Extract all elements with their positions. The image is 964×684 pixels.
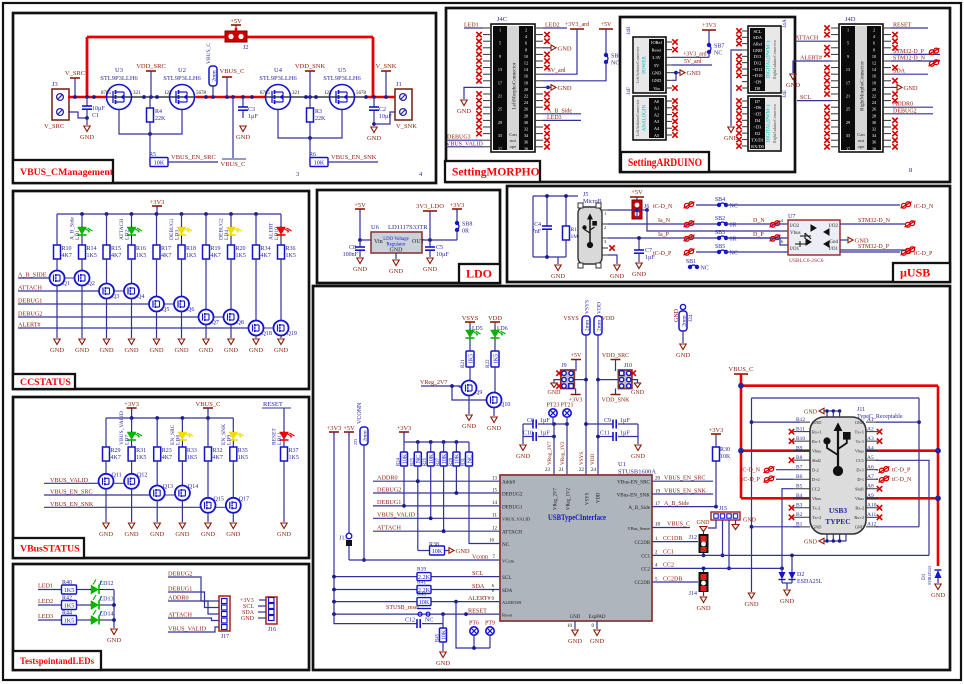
ground R19 col	[199, 339, 213, 354]
net label VBUS_EN_SRC	[44, 489, 150, 496]
svg-text:A7: A7	[867, 474, 874, 480]
test point PT6	[469, 621, 479, 649]
wire Q8 to ground	[230, 325, 232, 339]
svg-text:J4D: J4D	[845, 16, 856, 23]
svg-text:C2: C2	[379, 107, 386, 113]
svg-text:µUSB: µUSB	[900, 266, 930, 280]
svg-text:GND: GND	[631, 390, 645, 396]
svg-text:CC1: CC1	[663, 550, 674, 556]
connector J16	[266, 597, 277, 633]
rotated net VReg_2V7	[547, 441, 553, 465]
LED LD6	[491, 326, 508, 351]
title uUSB	[893, 263, 950, 282]
svg-text:D+2: D+2	[812, 477, 820, 482]
jumper J6	[632, 200, 649, 219]
ground arrow R38	[449, 548, 470, 555]
svg-text:Vbus: Vbus	[790, 231, 801, 236]
svg-text:9: 9	[847, 54, 849, 59]
svg-text:14: 14	[492, 501, 498, 506]
svg-text:3V3_LDO: 3V3_LDO	[416, 203, 444, 210]
svg-text:NC: NC	[425, 618, 433, 624]
wire pullup col4 to ATTACH	[443, 466, 445, 531]
resistor R24 10K	[397, 442, 409, 466]
svg-text:18: 18	[524, 80, 528, 85]
wire Q12 to ground	[131, 489, 133, 522]
svg-text:R41: R41	[417, 579, 426, 585]
ground below C3	[236, 126, 250, 141]
power flag +3V3 J9	[569, 389, 583, 404]
svg-text:tC-D_P: tC-D_P	[892, 468, 911, 474]
no-connect J10 pads	[631, 371, 636, 376]
IC U1 STUSB1600A	[500, 461, 656, 621]
power flag VBUS_C top	[220, 68, 245, 97]
svg-text:321: 321	[292, 91, 300, 96]
svg-text:RightArduinoConnector: RightArduinoConnector	[772, 103, 777, 143]
svg-text:VBUS_EN_SNK: VBUS_EN_SNK	[664, 489, 707, 495]
resistor R45 10K	[436, 624, 448, 651]
ground U6	[389, 253, 403, 275]
svg-text:Q11: Q11	[112, 472, 122, 478]
svg-text:VCom: VCom	[502, 559, 515, 564]
svg-text:GND: GND	[75, 347, 89, 354]
svg-text:STM32-D_N: STM32-D_N	[858, 218, 891, 224]
svg-text:U7: U7	[788, 214, 795, 220]
svg-text:GND: GND	[516, 453, 530, 460]
svg-text:Q14: Q14	[188, 484, 198, 490]
svg-text:ESDA25L: ESDA25L	[797, 579, 823, 585]
svg-text:LD12: LD12	[100, 581, 114, 587]
wire VBUS_C red net	[738, 374, 941, 566]
svg-text:B8: B8	[796, 455, 803, 461]
svg-text:D2: D2	[755, 131, 760, 136]
svg-text:4K7: 4K7	[261, 253, 271, 259]
svg-text:GND: GND	[274, 347, 288, 354]
wire Q13 to ground	[156, 501, 158, 523]
svg-text:LD5: LD5	[472, 326, 483, 332]
svg-text:0R: 0R	[462, 229, 469, 235]
svg-text:+5V: +5V	[230, 18, 242, 25]
svg-text:ExpPAD: ExpPAD	[589, 615, 606, 620]
svg-text:RESET: RESET	[468, 607, 487, 614]
svg-text:17: 17	[846, 80, 850, 85]
svg-text:2: 2	[525, 28, 527, 33]
ground R31 col	[125, 523, 139, 538]
svg-text:22: 22	[872, 94, 876, 99]
svg-text:R39: R39	[417, 567, 426, 573]
svg-text:GND: GND	[568, 638, 582, 645]
svg-text:21: 21	[498, 94, 502, 99]
net label RESET J4D	[891, 23, 928, 29]
svg-text:2mm: 2mm	[362, 430, 368, 442]
svg-text:GND: GND	[590, 638, 604, 645]
power flag +3V3 pullups	[397, 425, 412, 442]
svg-text:+3V3: +3V3	[124, 401, 139, 408]
svg-text:VSYS: VSYS	[586, 492, 591, 505]
net label LED2	[38, 598, 61, 605]
svg-text:Rx-1: Rx-1	[812, 439, 821, 444]
svg-text:Vbus: Vbus	[812, 448, 821, 453]
transistor Q15	[201, 461, 224, 513]
title SettingMORPHO	[445, 161, 540, 182]
svg-text:LDO Voltage: LDO Voltage	[383, 237, 409, 242]
svg-text:C10: C10	[523, 431, 533, 437]
svg-text:GND: GND	[236, 134, 250, 141]
no-connect marks J4B	[672, 39, 677, 90]
svg-text:VBUS_VALID: VBUS_VALID	[502, 517, 531, 522]
svg-text:GND: GND	[697, 520, 711, 526]
wire gate pair ATTACH	[114, 290, 124, 292]
svg-text:LD1117S33TR: LD1117S33TR	[388, 224, 428, 231]
svg-text:28: 28	[524, 113, 528, 118]
svg-text:A6: A6	[867, 465, 874, 471]
svg-text:12: 12	[524, 61, 528, 66]
svg-text:10K: 10K	[154, 160, 165, 167]
svg-text:Q3: Q3	[112, 294, 119, 300]
ground J12 top	[697, 520, 711, 534]
net label DEBUG2 to J17	[168, 571, 219, 602]
svg-text:Q9: Q9	[475, 390, 482, 396]
ground arrow J4D right	[891, 85, 918, 92]
svg-text:2: 2	[604, 225, 606, 230]
svg-text:C9: C9	[604, 418, 611, 424]
svg-text:R28: R28	[449, 457, 454, 466]
svg-text:8: 8	[873, 47, 875, 52]
svg-text:5: 5	[847, 41, 849, 46]
solder bridge SB1 NC	[686, 259, 709, 272]
svg-text:Shd2: Shd2	[812, 458, 821, 463]
svg-text:VDD_SRC: VDD_SRC	[602, 353, 629, 359]
svg-text:+3V3: +3V3	[450, 202, 465, 209]
wire Q3 to ground	[106, 299, 108, 339]
svg-text:1K5: 1K5	[468, 354, 474, 364]
svg-text:25: 25	[846, 107, 850, 112]
wire Vin	[360, 239, 371, 241]
svg-text:4K7: 4K7	[162, 455, 172, 461]
net label DEBUG1 row	[373, 499, 500, 508]
ground R29 col	[99, 523, 113, 538]
wire A12 gnd	[876, 526, 919, 528]
svg-text:13: 13	[498, 67, 502, 72]
svg-text:123: 123	[164, 91, 172, 96]
ground D2	[780, 590, 794, 605]
transistor Q7	[199, 259, 219, 326]
solder bridge SB5 NC	[715, 244, 900, 257]
section box uUSB	[507, 186, 950, 282]
bowtie tC-D_P right	[901, 249, 934, 257]
resistor R5 10K	[149, 152, 168, 167]
ground arrow U7	[840, 237, 869, 244]
svg-text:GND: GND	[199, 347, 213, 354]
svg-text:VBUS_C: VBUS_C	[196, 401, 221, 408]
resistor R15 4K7	[103, 214, 121, 259]
svg-text:PT21: PT21	[560, 403, 573, 409]
bowtie tC-D_N right	[901, 202, 935, 210]
ground J24	[676, 344, 690, 359]
svg-text:A4: A4	[654, 126, 660, 131]
svg-text:GND: GND	[855, 525, 864, 530]
transistor Q4	[124, 259, 144, 300]
svg-text:GND: GND	[743, 518, 757, 524]
power flag V_SRC	[65, 70, 85, 97]
wire J9 to VSYS	[574, 378, 588, 382]
no-connect marks J11 right	[877, 429, 882, 520]
svg-text:J12: J12	[689, 535, 697, 541]
wire GND left vertical TypeC	[750, 398, 754, 592]
capacitor C1 10uF	[82, 97, 105, 119]
svg-text:28: 28	[872, 113, 876, 118]
svg-text:DEBUG1: DEBUG1	[377, 499, 401, 506]
net label VBUS_C chip	[652, 522, 690, 528]
svg-text:38: 38	[872, 146, 876, 151]
net label CC1 row	[652, 550, 929, 558]
LED LD14	[90, 610, 114, 625]
svg-text:VSYS: VSYS	[579, 452, 585, 465]
resistor R37 1K5	[281, 444, 299, 522]
net label LED2 J4C	[543, 23, 567, 29]
svg-text:GND: GND	[224, 347, 238, 354]
wire D_P to U7 pin6	[726, 238, 788, 245]
wire GND top route TypeC	[752, 398, 921, 527]
svg-text:VBUS_EN_SRC: VBUS_EN_SRC	[664, 476, 705, 482]
svg-text:3: 3	[296, 171, 299, 178]
net label DEBUG3 J4C	[447, 135, 483, 141]
svg-text:LD3: LD3	[175, 230, 181, 240]
net label VBUS_EN_SRC chip	[652, 476, 713, 482]
wire SCL row	[332, 570, 500, 578]
svg-text:V_SRC: V_SRC	[65, 70, 85, 77]
svg-text:GND: GND	[931, 592, 945, 599]
power flag VDD LD6	[488, 315, 502, 330]
no-connect J9 pads	[556, 371, 561, 389]
title CCSTATUS	[13, 374, 75, 389]
svg-text:Vin: Vin	[374, 239, 383, 245]
ground TypeC top	[804, 408, 841, 417]
wire Q11 to ground	[105, 489, 107, 522]
resistor R38 10K	[418, 542, 449, 555]
svg-text:6: 6	[873, 41, 875, 46]
capacitor C5 10uF	[425, 240, 449, 258]
section box SettingMORPHO	[446, 8, 950, 182]
svg-text:D_N: D_N	[753, 218, 765, 224]
ground below C2	[367, 127, 381, 142]
svg-text:STM32-D_P: STM32-D_P	[858, 244, 890, 250]
transistor Q5	[149, 259, 169, 313]
resistor R28 10K	[449, 442, 461, 466]
wire OUT	[422, 238, 457, 242]
svg-text:VSYS: VSYS	[585, 300, 591, 314]
node junctions on VBUS rail	[73, 95, 388, 99]
svg-text:U4: U4	[274, 67, 283, 74]
net label VBUS_VALID	[44, 477, 99, 484]
connector J4B LeftArduinoConnector POWER	[626, 26, 672, 93]
svg-text:U2: U2	[178, 67, 186, 74]
svg-text:J23: J23	[353, 438, 358, 445]
svg-text:Rx+1: Rx+1	[812, 429, 822, 434]
svg-text:SCL: SCL	[753, 29, 761, 34]
LED LD10 ALERT	[269, 214, 292, 240]
svg-text:VBUS_C: VBUS_C	[221, 161, 246, 168]
svg-text:Q1: Q1	[63, 281, 70, 287]
svg-text:ALERT#: ALERT#	[468, 595, 491, 602]
svg-text:+5V: +5V	[354, 202, 366, 209]
svg-text:GND: GND	[201, 531, 215, 538]
transistor Q9	[462, 381, 483, 397]
svg-text:V_SNK: V_SNK	[376, 63, 397, 70]
wire gate pair DEBUG2	[214, 316, 224, 318]
rotated net VDD chip	[590, 454, 596, 465]
test point PT9	[485, 621, 495, 649]
svg-text:B6: B6	[796, 474, 803, 480]
svg-text:A_B_Side: A_B_Side	[628, 505, 650, 511]
svg-text:GND: GND	[174, 347, 188, 354]
transistor U4 STL9P3LLH6	[259, 67, 300, 110]
resistor R16 1K5	[128, 239, 146, 259]
power flag V_SNK	[376, 63, 397, 97]
svg-text:16: 16	[524, 74, 528, 79]
svg-text:R43: R43	[417, 591, 426, 597]
svg-text:R21: R21	[460, 359, 466, 368]
svg-text:VBus-EN_SRC: VBus-EN_SRC	[617, 480, 650, 486]
wire J15 pin2 CC1	[721, 520, 725, 557]
svg-text:VReg_2V7: VReg_2V7	[420, 380, 447, 386]
svg-text:Vconn: Vconn	[472, 555, 488, 561]
svg-text:A1: A1	[867, 417, 874, 423]
wire Q7 to ground	[205, 325, 207, 339]
transistor Q2	[75, 259, 95, 287]
svg-text:Reset: Reset	[652, 47, 663, 52]
svg-text:VDD_SNK: VDD_SNK	[601, 398, 630, 404]
svg-text:8: 8	[525, 47, 527, 52]
svg-text:GND: GND	[125, 531, 139, 538]
capacitor C2 10uF	[369, 97, 392, 124]
svg-text:J14: J14	[689, 591, 697, 597]
svg-text:Gnd: Gnd	[829, 240, 838, 245]
svg-text:22: 22	[524, 94, 528, 99]
svg-text:R26: R26	[423, 457, 428, 466]
svg-text:SDA: SDA	[753, 35, 763, 40]
ground C8 C10	[516, 424, 530, 460]
svg-text:VBUS_VALID: VBUS_VALID	[377, 512, 416, 519]
svg-text:C12: C12	[405, 618, 415, 624]
transistor Q11	[99, 461, 122, 489]
svg-text:5: 5	[499, 41, 501, 46]
svg-text:2mm: 2mm	[211, 70, 217, 82]
svg-text:SettingMORPHO: SettingMORPHO	[452, 167, 540, 179]
capacitor C10 1uF	[523, 431, 556, 442]
svg-text:GND: GND	[904, 85, 918, 92]
svg-text:~D9: ~D9	[754, 79, 763, 84]
svg-text:D4: D4	[755, 118, 761, 123]
net label RESET	[262, 401, 291, 432]
svg-text:+3V3_ard: +3V3_ard	[565, 22, 589, 28]
ground R35 col	[226, 523, 240, 538]
svg-text:NC: NC	[416, 455, 422, 463]
wire J10 to VDD rail	[596, 378, 620, 382]
svg-text:U1: U1	[618, 461, 626, 468]
wire Q6 to ground	[181, 312, 183, 339]
svg-text:+3V3: +3V3	[327, 425, 342, 432]
net label DEBUG2 J4D	[891, 108, 933, 114]
svg-text:V_SRC: V_SRC	[44, 123, 64, 130]
svg-text:VReg_2V7: VReg_2V7	[547, 441, 553, 465]
svg-text:LD4: LD4	[224, 230, 230, 240]
jumper J2	[225, 31, 248, 51]
ground R23 col	[150, 523, 164, 538]
svg-text:GND: GND	[631, 453, 645, 460]
wire +3V3 bus CCSTATUS	[57, 212, 281, 216]
svg-text:A3: A3	[654, 119, 660, 124]
svg-text:~D11: ~D11	[753, 67, 763, 72]
svg-text:321: 321	[133, 91, 141, 96]
svg-text:3.3V: 3.3V	[652, 55, 661, 60]
no-connect marks J4D right	[892, 32, 897, 150]
svg-text:SB5: SB5	[715, 244, 725, 250]
svg-text:GND: GND	[812, 525, 821, 530]
svg-text:10: 10	[872, 54, 876, 59]
svg-text:2mm: 2mm	[596, 319, 602, 331]
resistor R18 1K5	[178, 239, 196, 259]
svg-text:tC-D_P: tC-D_P	[914, 251, 933, 257]
svg-text:DIGITAL(PWM~): DIGITAL(PWM~)	[767, 40, 772, 78]
net label ATTACH row	[373, 525, 500, 534]
svg-text:100nF: 100nF	[343, 252, 359, 258]
svg-text:Tx-2: Tx-2	[812, 506, 820, 511]
capacitor C12 NC	[334, 614, 443, 628]
svg-text:U5: U5	[338, 67, 346, 74]
svg-text:17: 17	[498, 80, 502, 85]
jumper J12	[689, 534, 709, 557]
svg-text:10K: 10K	[442, 453, 448, 464]
svg-text:CC1: CC1	[641, 555, 650, 560]
net label CC1DB	[652, 536, 698, 542]
svg-text:STL9P3LLH6: STL9P3LLH6	[259, 75, 297, 82]
svg-text:26: 26	[872, 107, 876, 112]
connector J3	[44, 81, 69, 130]
svg-text:10: 10	[524, 54, 528, 59]
svg-text:CC2DB: CC2DB	[663, 576, 682, 582]
svg-text:NC: NC	[611, 61, 619, 67]
svg-text:POWER: POWER	[643, 56, 648, 74]
wire pullup col1 to DEBUG1	[403, 466, 405, 506]
ground J9	[548, 380, 562, 396]
ground R37 col	[277, 523, 291, 538]
svg-text:13: 13	[846, 67, 850, 72]
svg-text:4K7: 4K7	[161, 253, 171, 259]
svg-text:VDD: VDD	[597, 492, 602, 503]
svg-text:Ia_N: Ia_N	[658, 218, 671, 224]
resistor R32 4K7	[205, 418, 223, 461]
wire gate pair VBUS_EN_SRC	[165, 494, 175, 496]
wire gate pair DEBUG1	[164, 303, 174, 305]
ground LEDs	[107, 629, 121, 644]
power flag +3V3 R30	[709, 427, 724, 447]
test point PT21	[560, 403, 573, 476]
svg-text:GND: GND	[80, 134, 94, 141]
svg-text:STUSB_reset: STUSB_reset	[386, 605, 419, 611]
svg-text:R19: R19	[211, 246, 221, 252]
power flag VBUS_C VBusSTATUS	[196, 401, 221, 418]
wire U4 U5 gate net	[278, 110, 342, 140]
wire Vbus U7	[647, 210, 788, 231]
svg-text:VReg_1V2: VReg_1V2	[567, 488, 572, 510]
LED LD3 DEBUG1	[169, 214, 192, 240]
connector J4F LeftArduinoConnector ANALOGIN	[626, 87, 672, 140]
LED LD1 A_B_Side	[70, 214, 93, 240]
title LDO	[459, 264, 500, 283]
wire Q5 to ground	[156, 312, 158, 339]
connector J17	[219, 596, 230, 640]
transistor U2 STL9P3LLH6	[163, 67, 206, 110]
